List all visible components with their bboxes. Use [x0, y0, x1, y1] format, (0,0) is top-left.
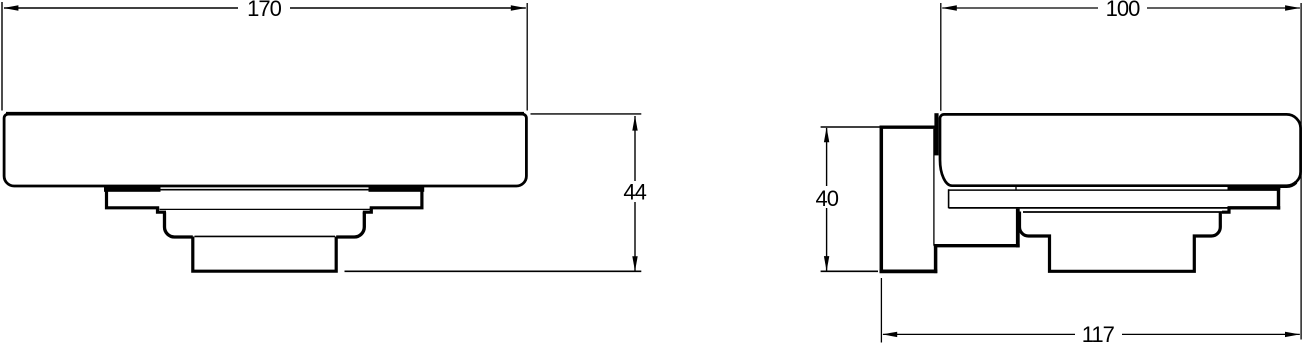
dimension line 40 [826, 128, 828, 271]
svg-text:170: 170 [247, 0, 281, 21]
dimension line 100 [942, 7, 1300, 9]
mounting arm right edge [1016, 209, 1020, 248]
shared right extension line (dim 100 / dim 117) [1300, 3, 1302, 340]
tier-2 and tier-3 profile side view [1020, 212, 1221, 272]
arrowhead bottom of dim 44 [632, 256, 637, 271]
dark flange bar left [104, 186, 161, 191]
arrowhead left of dim 170 [3, 5, 18, 10]
step connector left [158, 208, 167, 212]
extension line left of dim 117 [880, 278, 882, 343]
dark flange bar right [369, 186, 425, 191]
arrowhead left of dim 100 [942, 5, 957, 10]
white gap for label 40 [813, 186, 842, 208]
svg-text:100: 100 [1106, 0, 1140, 21]
step connector right side view [1222, 208, 1229, 212]
white gap for label 170 [238, 0, 290, 17]
wall plate top edge [880, 125, 938, 128]
svg-text:44: 44 [623, 179, 646, 204]
tier-2 back edge thin line [195, 235, 336, 237]
wall plate left edge [880, 126, 884, 274]
extension line left of dim 100 [940, 3, 942, 111]
extension line right of dim 170 [526, 3, 528, 111]
arrowhead right of dim 117 [1285, 332, 1300, 337]
arrowhead right of dim 100 [1285, 5, 1300, 10]
arrowhead top of dim 40 [824, 127, 829, 142]
tier-2 top edge thin line [1023, 211, 1229, 213]
extension line top of dim 40 [821, 126, 880, 128]
wall plate bottom edge [880, 270, 938, 274]
dish body side view outline [940, 114, 1301, 185]
arrowhead right of dim 170 [511, 5, 526, 10]
dark flange bar right side view [1228, 186, 1281, 190]
dimension line 170 [4, 7, 526, 9]
connector thin vertical dish to shelf [1015, 186, 1017, 190]
wall plate right edge thick segment [934, 244, 938, 273]
extension line top of dim 44 [531, 113, 642, 115]
tier-2 right outline [336, 212, 364, 237]
arrowhead top of dim 44 [632, 116, 637, 131]
shelf left edge side view [948, 189, 950, 208]
white gap for label 100 [1098, 0, 1147, 17]
shelf top thin line side view [948, 189, 1278, 191]
wall plate right edge thin segment [933, 129, 935, 246]
flange bar blend into dish corner [1279, 182, 1296, 186]
svg-text:117: 117 [1082, 322, 1115, 345]
dish left edge thick bar [934, 113, 938, 155]
tier-2 left outline [165, 212, 193, 237]
extension line bottom of dim 40 [821, 270, 878, 272]
dimension line 117 [883, 333, 1300, 335]
shelf bracket right [370, 189, 422, 208]
white gap for label 117 [1075, 326, 1122, 345]
arrowhead left of dim 117 [882, 332, 897, 337]
tier-3 box outline [193, 237, 336, 272]
step connector right [363, 208, 372, 212]
white gap for label 44 [621, 181, 650, 202]
dimension line 44 [634, 116, 636, 271]
body outline front view [4, 114, 526, 186]
shelf right edge thick [1277, 188, 1280, 210]
inner shelf thin line [160, 208, 371, 210]
extension line bottom of dim 44 [345, 270, 642, 272]
mounting arm top edge [934, 244, 1020, 247]
extension line left of dim 170 [1, 2, 3, 111]
arrowhead bottom of dim 40 [824, 256, 829, 271]
shelf bottom thin line [949, 207, 1229, 209]
body top edge reinforcement [6, 112, 524, 114]
shelf bottom thick segment [1228, 206, 1281, 209]
shelf bracket left [107, 189, 160, 208]
svg-text:40: 40 [816, 186, 839, 211]
thin shelf line between bars [161, 189, 369, 191]
